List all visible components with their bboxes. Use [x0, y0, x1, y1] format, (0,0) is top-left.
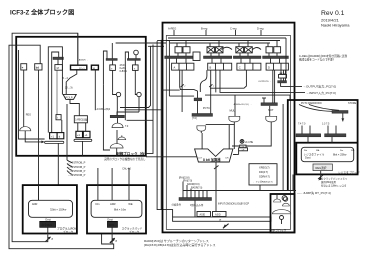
svg-text:Din: Din	[96, 202, 100, 206]
svg-text:Dout: Dout	[45, 218, 51, 222]
svg-text:命令REG: 命令REG	[42, 223, 53, 227]
svg-text:—←JUMP先 RT_PC[7:4]: —←JUMP先 RT_PC[7:4]	[297, 190, 331, 195]
svg-text:Naoki Hirayama: Naoki Hirayama	[321, 23, 350, 28]
svg-text:D-reg: D-reg	[257, 27, 264, 31]
svg-text:WE: WE	[128, 202, 132, 206]
svg-text:Rst: Rst	[304, 149, 308, 152]
svg-text:10→3t: 10→3t	[65, 85, 73, 89]
svg-text:制御ブロック（仮）: 制御ブロック（仮）	[116, 151, 148, 156]
svg-text:8bit × 256w: 8bit × 256w	[333, 153, 346, 157]
svg-text:←HISTROB_P: ←HISTROB_P	[68, 169, 86, 173]
svg-text:DR(4:7): DR(4:7)	[259, 170, 268, 174]
svg-text:←HISTROB_P: ←HISTROB_P	[68, 165, 86, 169]
svg-text:5→2: 5→2	[63, 76, 69, 80]
svg-text:←HISTROB_P: ←HISTROB_P	[68, 173, 86, 177]
svg-text:SDR: SDR	[109, 223, 115, 227]
svg-text:RADR(15:0): RADR(15:0)	[187, 183, 200, 186]
svg-text:兼用(8bit)使用: 兼用(8bit)使用	[321, 180, 337, 184]
svg-text:有効にまる8bitレジスタ: 有効にまる8bitレジスタ	[321, 184, 347, 188]
svg-text:ASID: ASID	[200, 214, 206, 217]
svg-text:OUTPUTS →: OUTPUTS →	[258, 81, 271, 83]
svg-text:INPUT,GND(OK),IO&BYGCP: INPUT,GND(OK),IO&BYGCP	[218, 203, 249, 206]
svg-text:[7:0]: [7:0]	[192, 117, 197, 120]
svg-text:→OUTPUT出力_PC[7:0]: →OUTPUT出力_PC[7:0]	[303, 84, 336, 89]
svg-text:CinT: CinT	[198, 157, 203, 159]
svg-text:変更ブロック: 変更ブロック	[270, 229, 287, 233]
svg-text:実際のブロックは複数なので見直し: 実際のブロックは複数なので見直し	[104, 157, 146, 161]
svg-text:LF-CHE: LF-CHE	[245, 142, 254, 144]
svg-text:ur: ur	[219, 219, 221, 222]
svg-text:CiR: CiR	[225, 157, 229, 159]
svg-text:PC/LR: PC/LR	[66, 96, 73, 99]
svg-text:32bit × 1024w: 32bit × 1024w	[50, 208, 66, 212]
svg-text:構成な線をコードなので不要？: 構成な線をコードなので不要？	[299, 58, 335, 62]
svg-text:1-REG回路: 1-REG回路	[75, 117, 88, 121]
svg-text:D: D	[268, 66, 270, 70]
svg-text:B: B	[210, 66, 212, 70]
svg-text:A306/5 →: A306/5 →	[79, 58, 89, 61]
svg-text:RADR(7:0): RADR(7:0)	[191, 186, 202, 189]
svg-text:Rev 0.1: Rev 0.1	[321, 10, 345, 17]
svg-text:XREG(7): XREG(7)	[259, 166, 270, 170]
svg-text:←HISTROB_P: ←HISTROB_P	[68, 161, 86, 165]
svg-text:CAL 4:0: CAL 4:0	[122, 167, 131, 170]
svg-text:レジスタ ブロック: レジスタ ブロック	[338, 171, 360, 175]
svg-text:1:3 7:5: 1:3 7:5	[322, 123, 330, 126]
svg-text:[RA](15:8): [RA](15:8)	[179, 177, 190, 180]
svg-text:0-8/01: 0-8/01	[120, 69, 128, 73]
svg-text:[RA(15:8),RB(14:8)]は割り込み時に実行する: [RA(15:8),RB(14:8)]は割り込み時に実行するアドレス	[144, 242, 216, 247]
svg-text:ADR: ADR	[32, 202, 38, 206]
svg-text:ADR: ADR	[110, 202, 116, 206]
svg-text:Dout: Dout	[107, 218, 113, 222]
svg-text:8bit × 16w: 8bit × 16w	[114, 208, 126, 212]
svg-text:Dout: Dout	[305, 156, 311, 160]
svg-text:STORE: STORE	[348, 102, 357, 105]
svg-text:分岐条件: 分岐条件	[172, 202, 182, 206]
svg-text:0割り込み等: 0割り込み等	[190, 203, 204, 207]
svg-text:MUL: MUL	[230, 108, 236, 112]
svg-text:PCTC RADDR RIN: PCTC RADDR RIN	[301, 102, 322, 105]
svg-text:REG選択: REG選択	[316, 166, 327, 170]
svg-text:8 bit 加算器: 8 bit 加算器	[203, 157, 221, 162]
svg-text:A: A	[174, 66, 176, 70]
svg-text:A-REG: A-REG	[168, 27, 176, 31]
svg-text:[RA](7:0): [RA](7:0)	[183, 180, 192, 183]
svg-text:REG: REG	[26, 113, 31, 116]
svg-text:M: M	[93, 68, 95, 70]
svg-text:ICF3-Z 全体ブロック図: ICF3-Z 全体ブロック図	[10, 9, 74, 17]
svg-text:ブロック: ブロック	[63, 230, 74, 234]
svg-text:ASID: ASID	[215, 214, 221, 217]
svg-text:NOT: NOT	[268, 108, 274, 112]
svg-text:M: M	[57, 66, 59, 70]
svg-text:SDR(4:7): SDR(4:7)	[259, 175, 270, 179]
svg-text:7:4 7:0: 7:4 7:0	[298, 123, 306, 126]
svg-text:bd: bd	[36, 66, 40, 70]
svg-text:スクラッチパッドメモリ: スクラッチパッドメモリ	[321, 177, 347, 181]
svg-text:PCTC: PCTC	[203, 106, 210, 110]
svg-text:ADER=C6,C,D) →: ADER=C6,C,D) →	[234, 103, 252, 106]
svg-text:ブロック: ブロック	[129, 230, 140, 234]
svg-text:PC+1: PC+1	[79, 68, 85, 70]
svg-text:0~REGはRADDRはRINを除き回路に送到: 0~REGはRADDRはRINを除き回路に送到	[299, 54, 348, 58]
svg-text:C-reg: C-reg	[230, 27, 237, 31]
svg-text:C: C	[239, 66, 241, 70]
svg-text:→INPUT入力_PC[7:0]: →INPUT入力_PC[7:0]	[306, 90, 336, 95]
svg-text:B-reg: B-reg	[201, 27, 208, 31]
